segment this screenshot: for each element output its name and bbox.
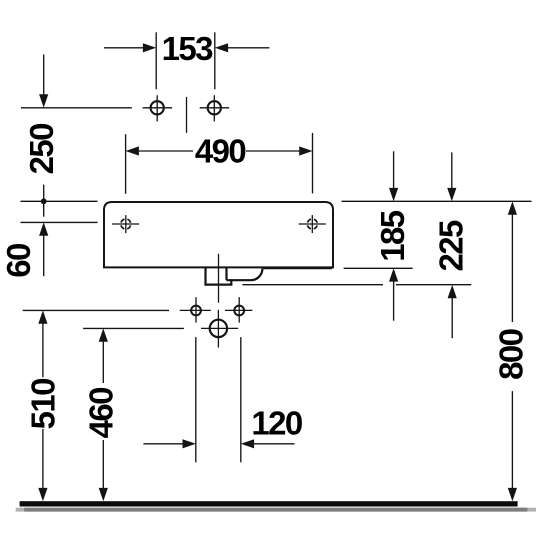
svg-text:250: 250: [23, 124, 60, 175]
svg-text:225: 225: [433, 220, 470, 272]
svg-text:185: 185: [374, 210, 411, 262]
svg-text:490: 490: [195, 132, 246, 169]
svg-text:153: 153: [162, 30, 214, 67]
svg-text:510: 510: [24, 379, 61, 430]
svg-text:60: 60: [0, 244, 37, 278]
svg-text:800: 800: [493, 329, 530, 380]
svg-text:120: 120: [251, 404, 302, 441]
svg-text:460: 460: [82, 388, 119, 439]
